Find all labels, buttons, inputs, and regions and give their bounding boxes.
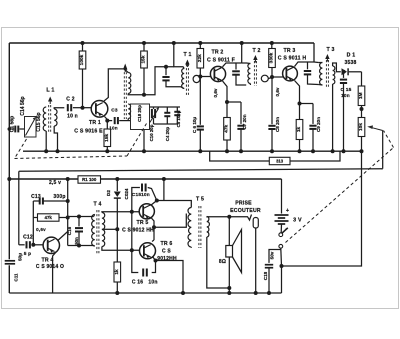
svg-text:50µ: 50µ (17, 253, 22, 261)
svg-text:C11: C11 (13, 273, 18, 282)
svg-text:300p: 300p (53, 194, 65, 200)
svg-text:D2: D2 (106, 190, 111, 196)
svg-text:22k: 22k (197, 54, 203, 62)
svg-text:C024: C024 (124, 188, 129, 199)
svg-text:C16: C16 (67, 226, 72, 235)
svg-text:C3: C3 (111, 108, 118, 114)
svg-text:C18: C18 (263, 271, 268, 280)
svg-text:47k: 47k (224, 124, 230, 132)
svg-text:15k: 15k (104, 133, 110, 141)
svg-text:C S 9016 E: C S 9016 E (74, 129, 103, 135)
svg-text:T 4: T 4 (93, 202, 101, 208)
svg-text:C S 9014 O: C S 9014 O (36, 264, 64, 270)
svg-text:0,6v: 0,6v (213, 88, 218, 97)
svg-text:C12: C12 (23, 235, 33, 241)
svg-text:TR 3: TR 3 (283, 48, 295, 54)
svg-text:C5 100p: C5 100p (176, 110, 181, 127)
svg-text:47k: 47k (45, 215, 53, 220)
svg-text:C9 20n: C9 20n (316, 117, 321, 132)
svg-text:5 p: 5 p (24, 251, 32, 257)
svg-text:3538: 3538 (345, 60, 357, 66)
svg-text:C 6 10µ: C 6 10µ (192, 117, 197, 134)
svg-text:T 3: T 3 (326, 47, 334, 53)
svg-text:10n: 10n (141, 192, 150, 198)
svg-text:50n: 50n (74, 237, 79, 245)
svg-text:10n: 10n (148, 280, 157, 286)
svg-text:313: 313 (276, 159, 284, 164)
svg-text:10 n: 10 n (67, 114, 78, 120)
svg-text:C S 9011 H: C S 9011 H (278, 56, 307, 62)
svg-text:330k: 330k (269, 52, 275, 63)
svg-text:1M: 1M (358, 92, 364, 99)
svg-text:10k: 10k (358, 123, 364, 131)
svg-text:C15: C15 (132, 192, 142, 198)
svg-text:TR 1: TR 1 (89, 120, 101, 126)
svg-text:50v: 50v (270, 251, 275, 259)
svg-text:1k: 1k (296, 127, 302, 133)
svg-text:100k: 100k (79, 54, 85, 65)
svg-text:T 5: T 5 (196, 197, 204, 203)
svg-text:+: + (286, 208, 289, 214)
svg-text:T 2: T 2 (252, 48, 260, 54)
svg-text:3 V: 3 V (293, 218, 302, 224)
svg-text:0,6v: 0,6v (275, 87, 280, 96)
svg-text:C18 20p: C18 20p (137, 105, 142, 122)
svg-text:PRISE: PRISE (235, 201, 252, 207)
svg-text:8Ω: 8Ω (219, 259, 226, 265)
svg-text:TR 6: TR 6 (160, 241, 172, 247)
svg-text:C 15: C 15 (341, 87, 352, 93)
svg-text:10n: 10n (109, 126, 118, 131)
svg-text:C7 20n: C7 20n (242, 114, 247, 129)
svg-text:D 1: D 1 (347, 53, 356, 59)
svg-text:C 2: C 2 (66, 97, 74, 103)
svg-text:2,5 v: 2,5 v (49, 180, 61, 186)
svg-text:C S 9012 HH: C S 9012 HH (122, 228, 154, 234)
svg-text:C14 56p: C14 56p (20, 96, 26, 115)
svg-text:TR 5: TR 5 (136, 220, 148, 226)
svg-text:C4 20p: C4 20p (165, 126, 170, 141)
svg-text:C8 20n: C8 20n (275, 117, 280, 132)
svg-text:15k: 15k (141, 55, 147, 63)
svg-text:10n: 10n (341, 93, 350, 99)
svg-text:C10 20p: C10 20p (149, 124, 154, 141)
svg-text:1k: 1k (114, 269, 120, 275)
svg-text:L 1: L 1 (46, 88, 54, 94)
svg-text:TR 2: TR 2 (211, 50, 223, 56)
svg-text:0,6v: 0,6v (36, 227, 46, 232)
svg-text:C 16: C 16 (132, 280, 143, 286)
svg-text:C15 56p: C15 56p (36, 112, 42, 131)
svg-text:R1 100: R1 100 (82, 177, 97, 182)
svg-text:TR 4: TR 4 (41, 258, 53, 264)
svg-text:ECOUTEUR: ECOUTEUR (230, 208, 261, 214)
svg-text:C S: C S (162, 249, 171, 255)
svg-text:T 1: T 1 (183, 52, 191, 58)
